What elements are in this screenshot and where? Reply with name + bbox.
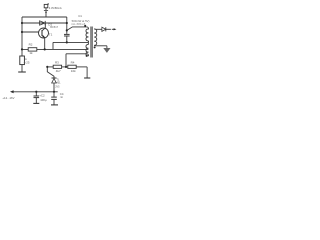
svg-text:R4: R4 [71,61,75,65]
svg-text:min. 80% eff.: min. 80% eff. [71,23,86,26]
svg-text:4k7: 4k7 [56,69,61,73]
svg-text:R2: R2 [29,42,33,46]
svg-text:431: 431 [56,82,61,85]
svg-text:2V5: 2V5 [55,86,60,89]
svg-text:10k: 10k [71,69,76,73]
svg-text:R3: R3 [55,61,59,65]
svg-text:C1: C1 [78,14,82,18]
svg-text:3.3V/80mA: 3.3V/80mA [49,6,62,10]
svg-text:+C2: +C2 [39,94,45,98]
svg-text:1k: 1k [29,51,33,55]
svg-text:1n: 1n [60,95,63,99]
svg-text:0.25: 0.25 [24,60,30,64]
svg-text:T1: T1 [49,32,53,36]
svg-text:BC517: BC517 [50,25,58,29]
svg-text:+12...16V: +12...16V [2,96,14,100]
svg-text:100µ: 100µ [40,98,47,102]
